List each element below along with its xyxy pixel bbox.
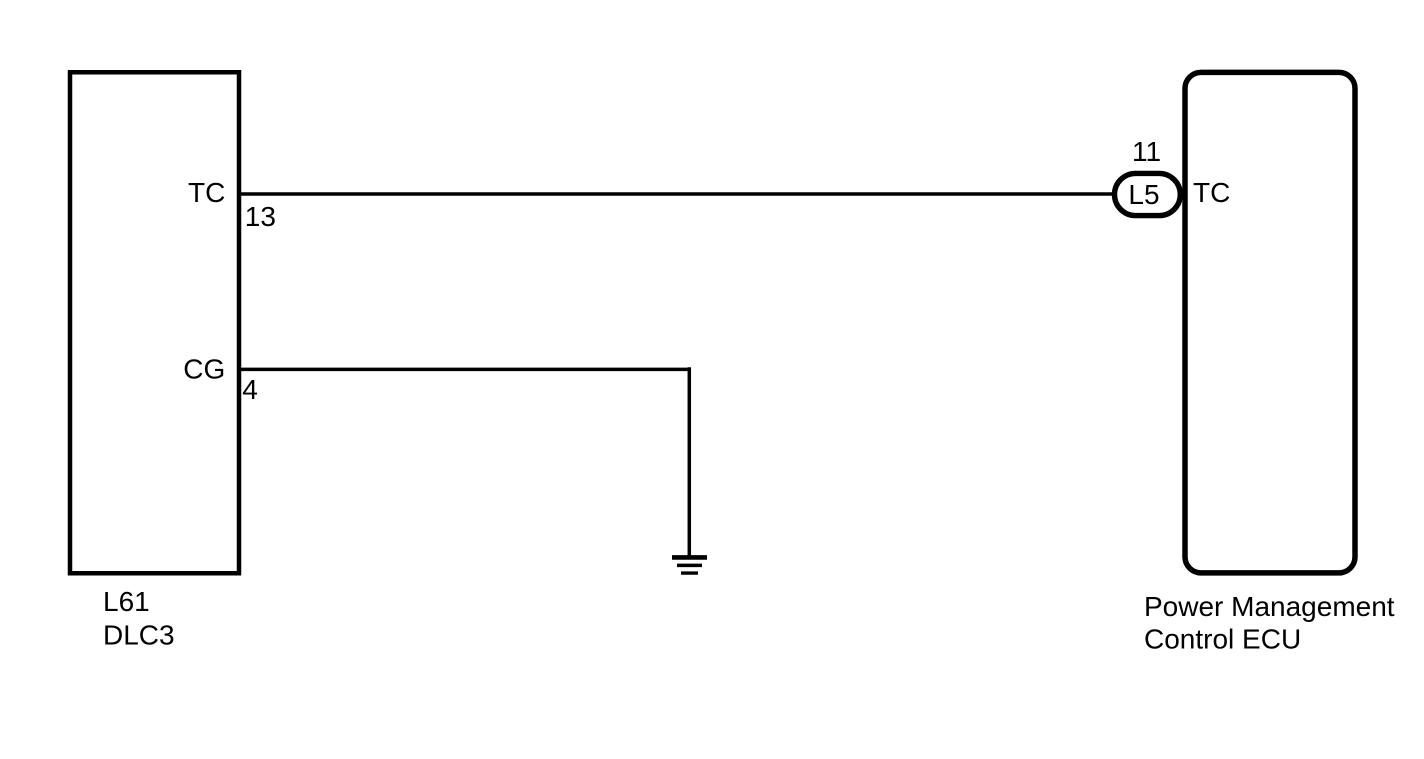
svg-text:13: 13 bbox=[245, 201, 276, 232]
svg-text:Power Management: Power Management bbox=[1144, 591, 1395, 622]
svg-text:Control ECU: Control ECU bbox=[1144, 624, 1301, 655]
svg-text:11: 11 bbox=[1132, 136, 1161, 167]
svg-text:L5: L5 bbox=[1128, 179, 1159, 210]
svg-text:DLC3: DLC3 bbox=[103, 620, 175, 651]
svg-text:4: 4 bbox=[242, 374, 258, 405]
svg-text:L61: L61 bbox=[103, 586, 150, 617]
svg-text:CG: CG bbox=[183, 353, 225, 384]
svg-text:TC: TC bbox=[1193, 177, 1230, 208]
svg-text:TC: TC bbox=[188, 177, 225, 208]
